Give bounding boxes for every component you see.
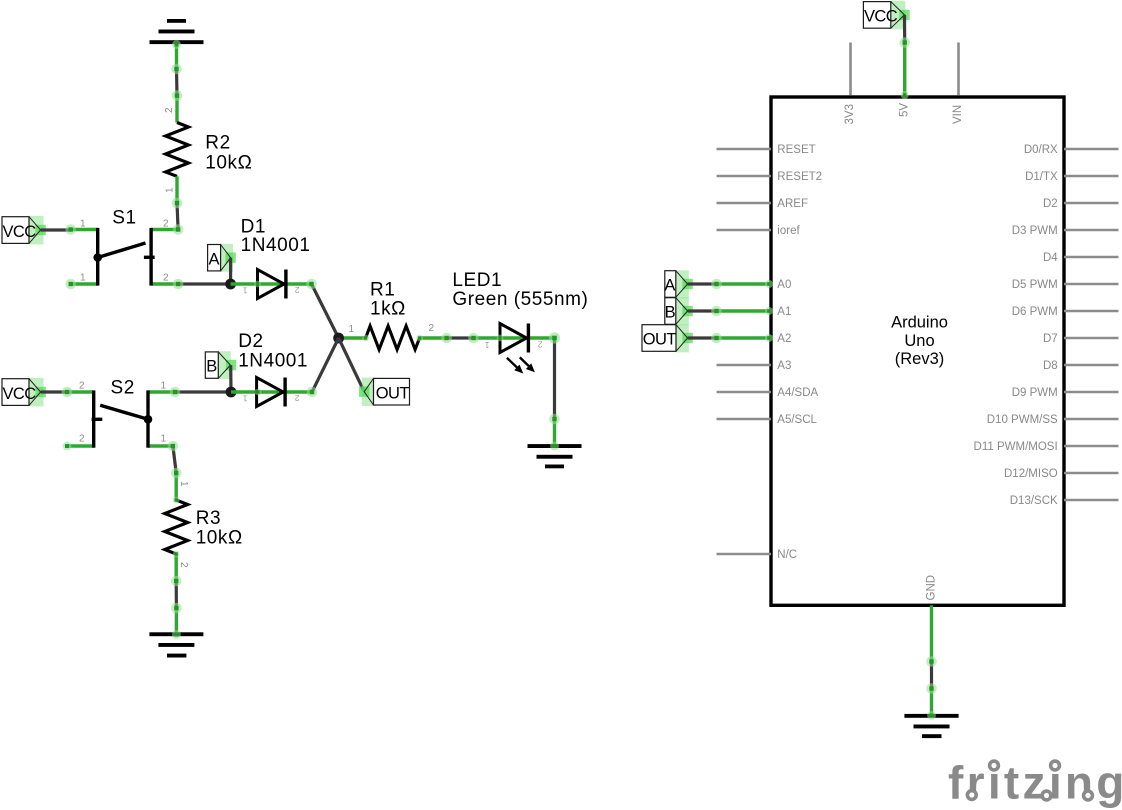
svg-text:1: 1: [80, 219, 86, 230]
svg-text:Green (555nm): Green (555nm): [452, 289, 588, 310]
pin 3V3: [849, 43, 852, 96]
net label VCC (lower): [2, 378, 46, 407]
svg-text:GND: GND: [926, 575, 938, 601]
svg-text:VIN: VIN: [952, 105, 964, 124]
svg-text:B: B: [206, 358, 217, 376]
wire R1 pin 2 to LED1 pin 1: [447, 336, 474, 339]
svg-text:10kΩ: 10kΩ: [196, 528, 243, 549]
title Arduino Uno (Rev3): [891, 314, 948, 369]
svg-text:Uno: Uno: [904, 332, 934, 350]
wire GND1 to R2 pin 2: [175, 69, 179, 96]
svg-text:10kΩ: 10kΩ: [205, 152, 252, 173]
net label VCC (upper): [2, 216, 46, 245]
svg-text:2: 2: [538, 340, 543, 350]
label D1 1N4001: [241, 217, 311, 257]
wire GND pin to GND4: [930, 662, 933, 689]
svg-text:VCC: VCC: [3, 223, 37, 241]
label R3 10k: [196, 508, 243, 548]
svg-text:2: 2: [178, 562, 189, 568]
LED LED1: [474, 324, 555, 374]
label D2 1N4001: [238, 331, 308, 371]
svg-text:1: 1: [80, 273, 86, 284]
svg-text:VCC: VCC: [864, 8, 898, 26]
svg-text:A1: A1: [777, 306, 791, 318]
wire VCC lower to S2 pin 2: [41, 390, 67, 393]
svg-text:R2: R2: [205, 133, 230, 154]
svg-text:1: 1: [165, 187, 176, 193]
wire D1 pin 2 to node R1 junction: [312, 284, 339, 338]
svg-text:S2: S2: [111, 378, 135, 399]
arduino-side glow nodes: [711, 37, 937, 720]
svg-text:A0: A0: [777, 279, 791, 291]
svg-text:RESET2: RESET2: [777, 171, 822, 183]
resistor R1: [339, 326, 447, 350]
left pins A3 A4/SDA A5/SCL: [717, 365, 772, 419]
pin numbers D1: [243, 285, 300, 295]
fritzing logo: [948, 757, 1122, 809]
diode D1: [231, 270, 312, 299]
svg-text:AREF: AREF: [777, 198, 808, 210]
wire VCC to S1 pin 1: [41, 228, 71, 231]
diode D2: [231, 378, 312, 407]
wire R3 pin 2 to GND3: [175, 581, 178, 608]
svg-text:A4/SDA: A4/SDA: [777, 387, 818, 399]
svg-text:A: A: [664, 277, 675, 295]
pin numbers D2: [243, 393, 300, 403]
wire net label B to junction: [229, 365, 233, 392]
net label A (at Arduino A0): [664, 270, 692, 298]
left pins RESET RESET2 AREF ioref: [717, 149, 772, 230]
net label VCC (top, at 5V): [863, 1, 909, 30]
ground GND4 (below Arduino): [904, 689, 958, 739]
svg-text:A2: A2: [777, 333, 791, 345]
svg-text:1N4001: 1N4001: [238, 350, 308, 371]
value label R2 10k: [205, 133, 252, 174]
wire D2 pin 2 to node R1 junction: [312, 338, 339, 392]
wire LED1 pin 2 down to GND2: [553, 338, 556, 419]
wire net label OUT to pin A2: [688, 336, 717, 339]
svg-text:5V: 5V: [898, 103, 910, 117]
wire R2 pin 1 to S1 pin 2: [177, 203, 178, 230]
svg-text:2: 2: [164, 107, 175, 113]
left pin labels: [777, 144, 822, 561]
switch S2: [67, 390, 175, 447]
wire net label A to junction: [229, 258, 232, 284]
svg-text:1N4001: 1N4001: [241, 235, 311, 256]
svg-text:2: 2: [79, 434, 85, 445]
svg-text:D3 PWM: D3 PWM: [1012, 225, 1058, 237]
svg-text:RESET: RESET: [777, 144, 815, 156]
svg-text:D2: D2: [238, 331, 263, 352]
svg-text:D5 PWM: D5 PWM: [1012, 279, 1058, 291]
left pin N/C: [717, 553, 772, 556]
wire S2 pin 1 lower to R3 pin 1: [173, 446, 176, 473]
svg-text:2: 2: [295, 393, 300, 403]
label LED1 Green: [452, 270, 588, 310]
pin A2 (connected): [717, 336, 772, 339]
svg-text:D10 PWM/SS: D10 PWM/SS: [987, 414, 1058, 426]
pin A0 (connected): [717, 282, 772, 285]
svg-text:D6 PWM: D6 PWM: [1012, 306, 1058, 318]
resistor R2: [166, 96, 189, 203]
svg-text:A3: A3: [777, 360, 791, 372]
ground GND1 (inverted, top of R2): [150, 19, 204, 69]
resistor R3: [165, 473, 188, 581]
svg-text:1: 1: [243, 286, 248, 296]
wire VCC top to 5V pin: [903, 15, 906, 43]
right pin labels: [974, 144, 1059, 507]
svg-text:N/C: N/C: [777, 549, 797, 561]
svg-text:1: 1: [243, 394, 248, 404]
Arduino Uno U1 body: [771, 97, 1064, 605]
pin GND (connected, bottom): [930, 605, 933, 661]
pin numbers R1: [349, 323, 435, 335]
pin numbers S1: [80, 219, 169, 284]
svg-text:A5/SCL: A5/SCL: [777, 414, 817, 426]
svg-text:1kΩ: 1kΩ: [370, 299, 406, 320]
wire endpoint glow nodes: [62, 40, 560, 639]
svg-text:1: 1: [161, 434, 167, 445]
wire net label A to pin A0: [688, 282, 717, 285]
svg-text:D4: D4: [1043, 252, 1058, 264]
svg-text:A: A: [209, 250, 220, 268]
svg-text:OUT: OUT: [643, 331, 677, 349]
svg-text:3V3: 3V3: [844, 104, 856, 124]
net label OUT (left): [359, 378, 410, 406]
wire node R1 junction to net label OUT: [339, 338, 365, 392]
svg-text:B: B: [665, 304, 676, 322]
net label A (left): [208, 244, 236, 272]
svg-text:D13/SCK: D13/SCK: [1010, 495, 1058, 507]
right pins D0-D13: [1064, 149, 1119, 500]
pin 5V (connected): [903, 43, 906, 97]
svg-text:2: 2: [163, 273, 169, 284]
switch S1: [71, 228, 178, 286]
svg-text:R1: R1: [370, 280, 395, 301]
net label B (at Arduino A1): [665, 297, 693, 325]
node B junction dot: [226, 387, 237, 398]
svg-text:1: 1: [349, 324, 355, 335]
svg-text:2: 2: [79, 381, 85, 392]
svg-text:2: 2: [429, 323, 435, 334]
pin numbers LED1: [485, 340, 543, 350]
svg-text:D9 PWM: D9 PWM: [1012, 387, 1058, 399]
svg-text:D7: D7: [1043, 333, 1058, 345]
svg-text:S1: S1: [112, 207, 136, 228]
svg-text:(Rev3): (Rev3): [895, 350, 945, 368]
pin numbers R3: [178, 481, 189, 568]
svg-text:OUT: OUT: [376, 384, 410, 402]
pin A1 (connected): [717, 309, 772, 312]
net label B (left): [205, 351, 236, 379]
svg-text:D11 PWM/MOSI: D11 PWM/MOSI: [974, 441, 1058, 453]
net label OUT (at Arduino A2): [642, 324, 693, 352]
svg-text:VCC: VCC: [3, 385, 37, 403]
pin numbers S2: [79, 381, 167, 445]
svg-text:Arduino: Arduino: [891, 314, 948, 332]
node R1 junction dot: [333, 333, 344, 344]
svg-text:D8: D8: [1043, 360, 1058, 372]
svg-text:D12/MISO: D12/MISO: [1004, 468, 1058, 480]
node A junction dot: [225, 279, 236, 290]
svg-text:D0/RX: D0/RX: [1024, 144, 1058, 156]
ground GND3 (bottom left): [149, 608, 203, 658]
svg-text:ioref: ioref: [777, 225, 800, 237]
svg-text:D1/TX: D1/TX: [1025, 171, 1058, 183]
ground GND2 (below LED1): [528, 419, 582, 468]
svg-text:1: 1: [178, 481, 189, 487]
svg-text:2: 2: [163, 219, 169, 230]
label R1 1k: [370, 280, 406, 320]
svg-text:D2: D2: [1043, 198, 1058, 210]
svg-text:1: 1: [161, 381, 167, 392]
svg-text:LED1: LED1: [452, 270, 502, 291]
wire S2 pin 1 to node B junction: [175, 390, 231, 393]
svg-text:2: 2: [295, 285, 300, 295]
wire net label B to pin A1: [688, 309, 717, 312]
svg-text:R3: R3: [196, 508, 221, 529]
svg-text:1: 1: [485, 340, 490, 350]
pin VIN: [957, 43, 960, 96]
wire S1 pin 2 to node A junction: [178, 282, 231, 285]
